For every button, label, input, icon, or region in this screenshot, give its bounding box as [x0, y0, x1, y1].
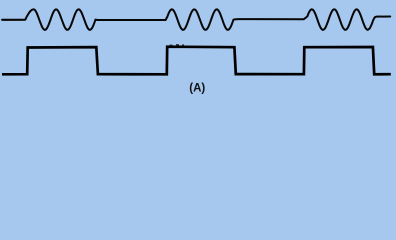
svg-text:(A): (A): [189, 83, 205, 95]
